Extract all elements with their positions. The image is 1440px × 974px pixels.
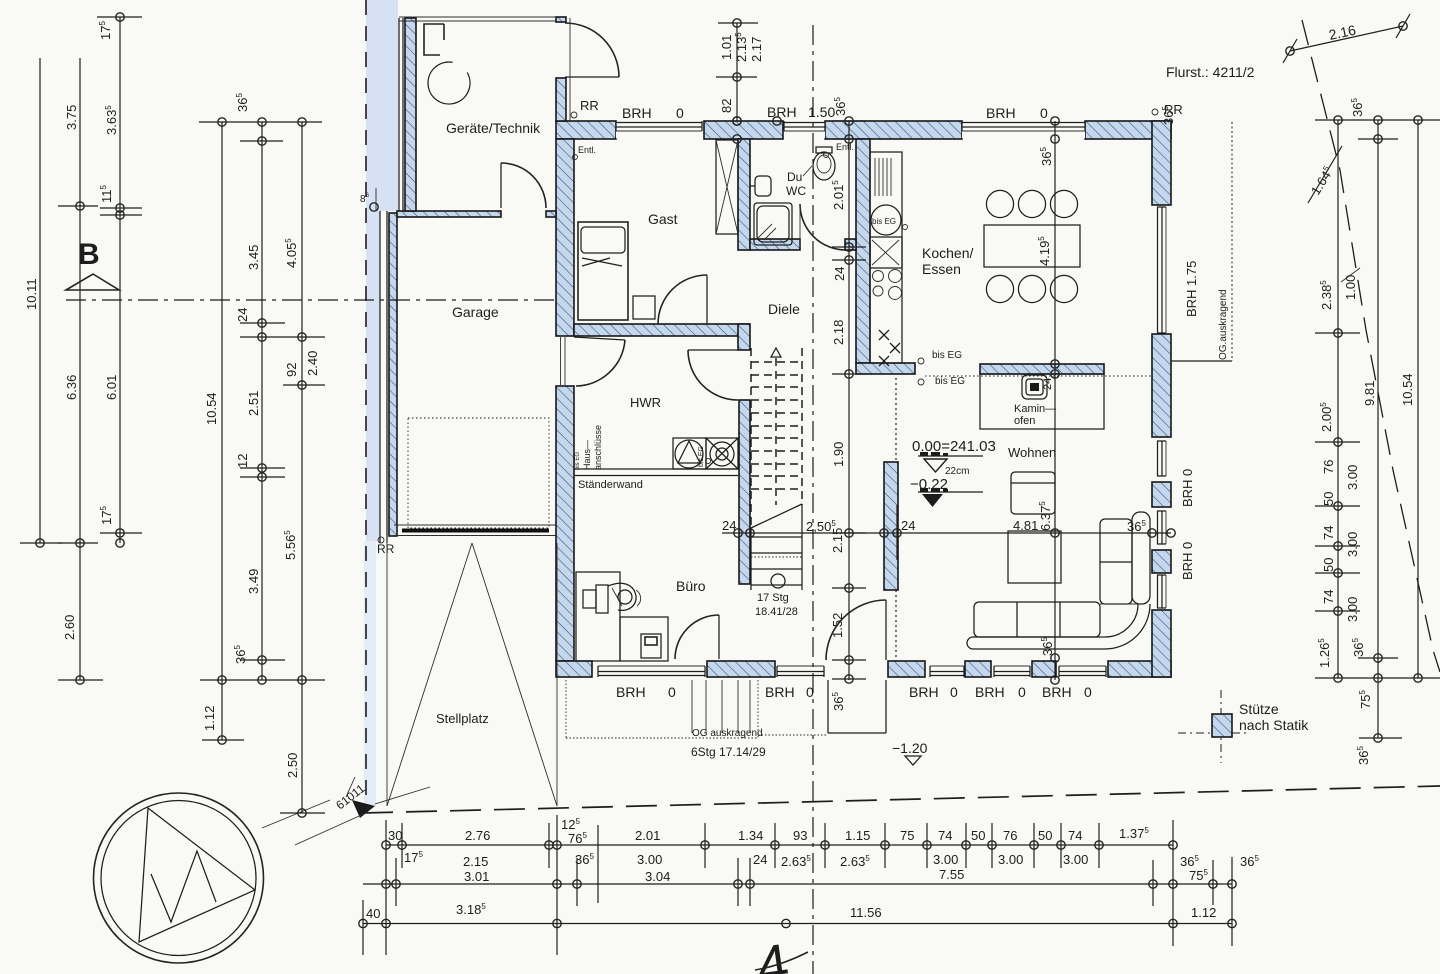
svg-text:6.36: 6.36 — [64, 375, 79, 400]
svg-text:3.00: 3.00 — [1063, 852, 1088, 867]
svg-text:0: 0 — [668, 684, 676, 700]
svg-text:24: 24 — [901, 518, 915, 533]
svg-text:74: 74 — [1321, 526, 1336, 540]
svg-text:0: 0 — [1040, 105, 1048, 121]
svg-text:2.18: 2.18 — [831, 320, 846, 345]
svg-text:Kochen/: Kochen/ — [922, 245, 973, 261]
svg-text:bis EG: bis EG — [935, 376, 965, 387]
svg-text:BRH: BRH — [616, 684, 646, 700]
svg-text:Stellplatz: Stellplatz — [436, 711, 489, 726]
svg-text:76: 76 — [1321, 460, 1336, 474]
svg-text:BRH 0: BRH 0 — [1180, 542, 1195, 580]
svg-text:3.00: 3.00 — [1345, 532, 1360, 557]
svg-text:BRH 1.75: BRH 1.75 — [1184, 261, 1199, 317]
svg-text:BRH: BRH — [909, 684, 939, 700]
svg-text:3.75: 3.75 — [64, 105, 79, 130]
svg-text:22cm: 22cm — [945, 466, 969, 477]
svg-text:BRH: BRH — [765, 684, 795, 700]
svg-text:1.90: 1.90 — [831, 442, 846, 467]
svg-text:1.01: 1.01 — [719, 35, 734, 60]
svg-text:BRH: BRH — [622, 105, 652, 121]
svg-text:2.60: 2.60 — [62, 615, 77, 640]
svg-text:40: 40 — [366, 906, 380, 921]
svg-text:2.15: 2.15 — [463, 854, 488, 869]
svg-text:4.81: 4.81 — [1013, 518, 1038, 533]
svg-text:OG.auskragend: OG.auskragend — [1218, 289, 1229, 360]
svg-text:0: 0 — [676, 105, 684, 121]
svg-text:1.15: 1.15 — [845, 828, 870, 843]
svg-text:bis EG: bis EG — [698, 446, 705, 467]
svg-text:1.50: 1.50 — [808, 104, 835, 120]
svg-text:2.01: 2.01 — [635, 828, 660, 843]
svg-text:BRH: BRH — [975, 684, 1005, 700]
svg-text:Gast: Gast — [648, 211, 678, 227]
svg-text:3.00: 3.00 — [1345, 597, 1360, 622]
svg-text:17 Stg: 17 Stg — [757, 592, 789, 604]
svg-text:18.41/28: 18.41/28 — [755, 606, 798, 618]
svg-text:82: 82 — [719, 99, 734, 113]
svg-text:Diele: Diele — [768, 301, 800, 317]
svg-text:2.15: 2.15 — [830, 528, 845, 553]
svg-text:1.12: 1.12 — [202, 706, 217, 731]
svg-text:0: 0 — [950, 684, 958, 700]
svg-text:24: 24 — [753, 852, 767, 867]
svg-text:Ständerwand: Ständerwand — [578, 479, 643, 491]
svg-text:OG auskragend: OG auskragend — [692, 728, 763, 739]
svg-text:10.54: 10.54 — [204, 392, 219, 425]
svg-text:3.00: 3.00 — [998, 852, 1023, 867]
svg-text:nach Statik: nach Statik — [1239, 717, 1309, 733]
svg-text:10.11: 10.11 — [24, 278, 39, 310]
svg-text:6Stg 17.14/29: 6Stg 17.14/29 — [691, 745, 766, 759]
svg-text:11.56: 11.56 — [850, 905, 882, 920]
svg-text:BRH: BRH — [986, 105, 1016, 121]
svg-text:74: 74 — [938, 828, 952, 843]
svg-text:24: 24 — [235, 308, 250, 322]
svg-text:0: 0 — [1084, 684, 1092, 700]
svg-text:Geräte/Technik: Geräte/Technik — [446, 120, 541, 136]
svg-text:10.54: 10.54 — [1400, 373, 1415, 406]
svg-text:3.00: 3.00 — [637, 852, 662, 867]
svg-text:Essen: Essen — [922, 261, 961, 277]
svg-text:1.52: 1.52 — [830, 613, 845, 638]
svg-text:74: 74 — [1068, 828, 1082, 843]
svg-text:BRH: BRH — [767, 104, 797, 120]
svg-text:anschlüsse: anschlüsse — [593, 425, 603, 470]
svg-text:50: 50 — [1038, 828, 1052, 843]
svg-text:76: 76 — [1003, 828, 1017, 843]
svg-text:12: 12 — [235, 454, 250, 468]
svg-text:B: B — [78, 238, 100, 271]
svg-text:RR: RR — [580, 98, 599, 113]
svg-text:Du: Du — [787, 170, 802, 184]
svg-text:Stütze: Stütze — [1239, 701, 1279, 717]
svg-text:50: 50 — [971, 828, 985, 843]
svg-text:Büro: Büro — [676, 578, 706, 594]
svg-text:Wohnen: Wohnen — [1008, 445, 1056, 460]
svg-text:3.01: 3.01 — [464, 869, 489, 884]
svg-text:2.50: 2.50 — [285, 753, 300, 778]
svg-text:Flurst.: 4211/2: Flurst.: 4211/2 — [1166, 64, 1255, 80]
svg-text:Garage: Garage — [452, 304, 499, 320]
svg-text:2.40: 2.40 — [305, 351, 320, 376]
svg-text:24: 24 — [1042, 378, 1054, 390]
svg-text:74: 74 — [1321, 590, 1336, 604]
svg-text:−0.22: −0.22 — [910, 476, 948, 493]
svg-text:93: 93 — [793, 828, 807, 843]
svg-text:3.04: 3.04 — [645, 869, 670, 884]
svg-text:ofen: ofen — [1014, 415, 1035, 427]
svg-text:50: 50 — [1321, 558, 1336, 572]
svg-text:2.17: 2.17 — [749, 37, 764, 62]
svg-text:−1.20: −1.20 — [892, 740, 928, 756]
svg-text:7.55: 7.55 — [939, 867, 964, 882]
svg-text:WC: WC — [786, 184, 806, 198]
svg-text:1.34: 1.34 — [738, 828, 763, 843]
svg-text:24: 24 — [722, 518, 736, 533]
svg-text:9.81: 9.81 — [1362, 381, 1377, 406]
svg-text:1.12: 1.12 — [1191, 905, 1216, 920]
svg-text:2.51: 2.51 — [246, 391, 261, 416]
svg-text:3.00: 3.00 — [933, 852, 958, 867]
svg-text:3.45: 3.45 — [246, 245, 261, 270]
svg-text:6.01: 6.01 — [104, 375, 119, 400]
svg-text:2.76: 2.76 — [465, 828, 490, 843]
svg-text:Entl.: Entl. — [578, 145, 596, 155]
svg-text:24: 24 — [832, 267, 847, 281]
svg-text:Entl.: Entl. — [836, 142, 854, 152]
svg-text:Haus—: Haus— — [582, 440, 592, 470]
svg-text:30: 30 — [388, 828, 402, 843]
svg-text:RR: RR — [377, 542, 395, 556]
svg-text:BRH: BRH — [1042, 684, 1072, 700]
svg-text:HWR: HWR — [630, 395, 661, 410]
svg-text:BRH 0: BRH 0 — [1180, 469, 1195, 507]
svg-text:75: 75 — [900, 828, 914, 843]
svg-text:0: 0 — [806, 684, 814, 700]
svg-text:0: 0 — [1018, 684, 1026, 700]
svg-text:Kamin—: Kamin— — [1014, 403, 1056, 415]
svg-text:bis EG: bis EG — [575, 452, 581, 470]
svg-text:bis EG: bis EG — [932, 350, 962, 361]
svg-text:92: 92 — [284, 363, 299, 377]
svg-text:bis EG: bis EG — [872, 217, 896, 226]
svg-text:3.00: 3.00 — [1345, 465, 1360, 490]
svg-text:3.49: 3.49 — [246, 569, 261, 594]
